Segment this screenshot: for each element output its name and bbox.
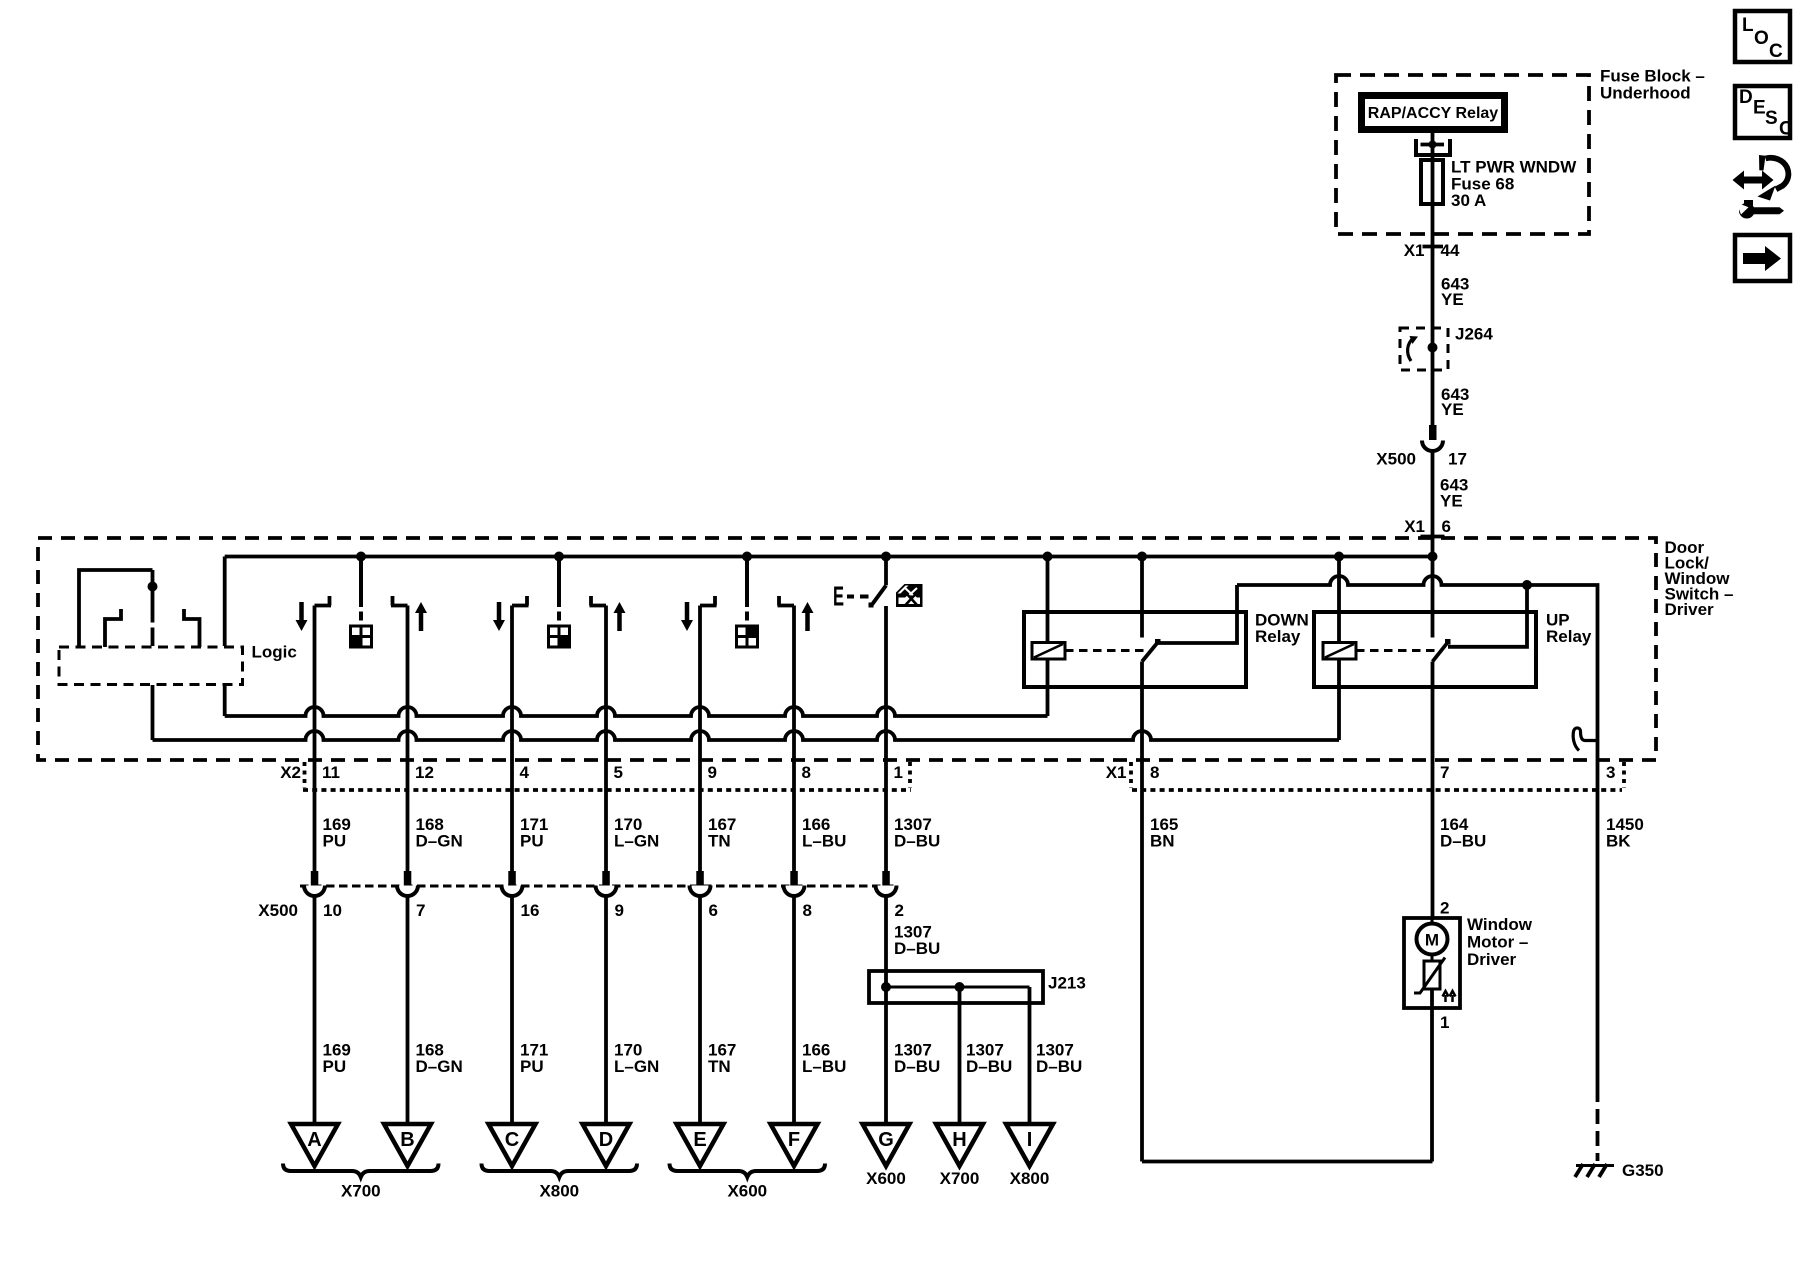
wire 168 D-GN upper — [406, 606, 410, 872]
svg-text:D: D — [599, 1129, 613, 1151]
svg-text:10: 10 — [323, 901, 342, 920]
svg-text:BK: BK — [1606, 832, 1631, 851]
svg-text:Motor –: Motor – — [1467, 933, 1528, 952]
X500 dashed joining line — [300, 885, 897, 888]
svg-text:Relay: Relay — [1546, 627, 1592, 646]
terminal triangle C — [489, 1124, 536, 1166]
ground spur curl — [1573, 728, 1597, 751]
svg-text:X1: X1 — [1404, 241, 1425, 260]
svg-text:X800: X800 — [1010, 1169, 1050, 1188]
SECTION: feed chain — [1376, 325, 1493, 557]
LOC nav box — [1735, 11, 1790, 62]
svg-text:L: L — [1742, 15, 1754, 36]
svg-text:TN: TN — [708, 1057, 731, 1076]
svg-text:C: C — [1779, 119, 1793, 140]
upper wire labels — [323, 815, 941, 851]
wire 1307 to I — [1028, 987, 1032, 1124]
wire 171 PU lower — [510, 897, 514, 1125]
svg-text:C: C — [505, 1129, 519, 1151]
svg-text:YE: YE — [1441, 290, 1464, 309]
svg-text:8: 8 — [803, 901, 812, 920]
wire 1307 D-BU upper — [884, 606, 888, 871]
connector X500 pin 17 (inline) — [1422, 425, 1443, 451]
relay output pin cup — [1416, 133, 1450, 160]
terminal triangle B — [384, 1124, 431, 1166]
wire 170 L-GN upper — [604, 606, 608, 872]
logic solid box — [79, 570, 153, 646]
bottom return run — [1142, 1160, 1433, 1164]
connector X500 row — [258, 871, 904, 920]
terminal triangle H — [936, 1124, 983, 1166]
node rail-down-contact — [1137, 552, 1147, 562]
svg-text:L–BU: L–BU — [802, 1057, 846, 1076]
inner rail 2 with hops — [153, 731, 1340, 740]
terminal triangle A — [291, 1124, 338, 1166]
svg-text:Logic: Logic — [252, 643, 297, 662]
svg-text:D–BU: D–BU — [1036, 1057, 1082, 1076]
down arrow — [685, 602, 690, 621]
terminal triangle G — [863, 1124, 910, 1166]
switch contact left — [700, 596, 717, 606]
svg-text:4: 4 — [520, 763, 530, 782]
express window icon — [896, 584, 923, 607]
node rail-down-coil — [1043, 552, 1053, 562]
node rail-up-coil — [1334, 552, 1344, 562]
svg-text:2: 2 — [895, 901, 904, 920]
wire 170 L-GN lower — [604, 897, 608, 1125]
node rail-icon3 — [742, 552, 752, 562]
svg-text:YE: YE — [1440, 492, 1463, 511]
icon stem wire — [745, 557, 749, 621]
express switch E — [833, 557, 923, 612]
lower wire labels — [323, 1041, 1083, 1077]
wire fuse to X1-44 — [1431, 204, 1435, 330]
X2 dotted line — [303, 788, 911, 792]
svg-text:17: 17 — [1448, 450, 1467, 469]
svg-text:X1: X1 — [1404, 517, 1425, 536]
door lock window switch label — [1665, 538, 1734, 619]
svg-text:D–BU: D–BU — [1440, 832, 1486, 851]
wire 166 L-BU upper — [792, 606, 796, 872]
DESC nav box — [1735, 86, 1793, 140]
svg-text:3: 3 — [1606, 763, 1615, 782]
down relay blade — [1142, 642, 1158, 662]
up relay actuation dashes — [1356, 649, 1435, 652]
fuse block underhood dashed box — [1336, 75, 1589, 234]
svg-text:8: 8 — [802, 763, 811, 782]
node J213-H — [955, 982, 965, 992]
window icon 3 — [737, 626, 758, 647]
svg-text:16: 16 — [521, 901, 540, 920]
RAP/ACCY Relay box — [1358, 92, 1508, 133]
X1 separator left — [1129, 762, 1133, 788]
svg-text:9: 9 — [708, 763, 717, 782]
up arrow — [419, 612, 424, 631]
SECTION: connectors and lower wires — [258, 606, 1086, 1201]
wire 1307 to H — [958, 987, 962, 1124]
fuse 68 symbol — [1421, 160, 1443, 204]
splice J213 box — [869, 971, 1043, 1003]
down relay coil — [1032, 643, 1065, 660]
svg-text:X700: X700 — [341, 1182, 381, 1201]
svg-text:TN: TN — [708, 832, 731, 851]
svg-text:L–GN: L–GN — [614, 1057, 659, 1076]
svg-text:E: E — [1753, 98, 1766, 119]
up arrow — [617, 612, 622, 631]
svg-text:J264: J264 — [1455, 325, 1493, 344]
down relay actuation dashes — [1065, 649, 1145, 652]
splice arrow glyph — [1408, 339, 1413, 362]
brace X700 — [283, 1164, 439, 1201]
wire X500 to X1-6 — [1431, 452, 1435, 557]
up relay blade — [1433, 642, 1449, 662]
pair 3: window switch — [681, 557, 814, 648]
wire rail to logic top — [223, 557, 227, 647]
icon stem wire — [359, 557, 363, 621]
logic detent step left — [105, 609, 121, 647]
wire 168 D-GN lower — [406, 897, 410, 1125]
svg-text:PU: PU — [323, 832, 347, 851]
logic latch wire with gap — [151, 570, 155, 646]
terminal triangle F — [771, 1124, 818, 1166]
switch contact right — [590, 596, 607, 606]
svg-text:PU: PU — [520, 1057, 544, 1076]
SECTION: top-right icons — [1733, 11, 1794, 281]
wire down coil to rail1 — [1046, 659, 1050, 716]
wire rail to up coil — [1337, 557, 1341, 643]
SECTION: fuse block — [1336, 67, 1705, 331]
svg-text:D–GN: D–GN — [416, 1057, 463, 1076]
svg-text:9: 9 — [615, 901, 624, 920]
svg-text:E: E — [693, 1129, 706, 1151]
door lock window switch driver dashed box — [38, 538, 1656, 760]
fixed contact stub — [884, 557, 888, 586]
wire 167 TN upper — [698, 606, 702, 872]
svg-text:D–BU: D–BU — [894, 939, 940, 958]
svg-text:G: G — [878, 1129, 894, 1151]
svg-text:L–GN: L–GN — [614, 832, 659, 851]
svg-text:2: 2 — [1440, 899, 1449, 918]
X2 separator left — [303, 762, 307, 788]
pair 1: window switch front left — [296, 557, 428, 648]
thermal protector — [1414, 958, 1456, 1003]
svg-text:Driver: Driver — [1467, 950, 1517, 969]
up arrow — [805, 612, 810, 631]
terminal triangle E — [677, 1124, 724, 1166]
wire logic bottom to rail1 — [223, 685, 227, 716]
up relay coil — [1323, 643, 1356, 660]
svg-text:X500: X500 — [258, 901, 298, 920]
svg-text:1: 1 — [894, 763, 903, 782]
svg-text:D–BU: D–BU — [894, 1057, 940, 1076]
X1 separator right — [1622, 762, 1626, 788]
svg-text:6: 6 — [709, 901, 718, 920]
ground wire dashed part — [1596, 1109, 1600, 1161]
down relay output to ground line — [1158, 585, 1237, 643]
svg-text:PU: PU — [520, 832, 544, 851]
svg-text:F: F — [788, 1129, 800, 1151]
ground G350 symbol — [1575, 1164, 1614, 1177]
motor wire to pin 1 — [1430, 989, 1434, 1162]
double-arrow / wrench icon — [1733, 155, 1789, 219]
svg-text:Underhood: Underhood — [1600, 84, 1691, 103]
svg-text:D–BU: D–BU — [966, 1057, 1012, 1076]
wire down relay to motor (165) — [1140, 662, 1144, 1162]
window icon 1 — [351, 626, 372, 647]
X500 pin symbols — [304, 871, 897, 896]
svg-text:12: 12 — [415, 763, 434, 782]
wire 169 PU lower — [313, 897, 317, 1125]
svg-text:C: C — [1769, 41, 1783, 62]
X2 separator right — [908, 762, 912, 788]
svg-text:RAP/ACCY Relay: RAP/ACCY Relay — [1368, 105, 1499, 122]
svg-text:30 A: 30 A — [1451, 191, 1486, 210]
svg-text:B: B — [400, 1129, 414, 1151]
wire 166 L-BU lower — [792, 897, 796, 1125]
up relay output branch — [1448, 585, 1527, 647]
wire 167 TN lower — [698, 897, 702, 1125]
svg-text:BN: BN — [1150, 832, 1175, 851]
wire logic bottom to rail2 — [151, 685, 155, 740]
node rail-icon1 — [356, 552, 366, 562]
pair 2: window switch — [493, 557, 626, 648]
node rail-feed — [1428, 552, 1438, 562]
switch contact right — [391, 596, 408, 606]
node logic latch — [148, 582, 158, 592]
down relay B+ contact stub — [1140, 557, 1144, 638]
wire rail2 to up coil — [1337, 659, 1341, 740]
svg-text:X800: X800 — [539, 1182, 579, 1201]
splice J264 node dot — [1428, 343, 1438, 353]
svg-text:X700: X700 — [940, 1169, 980, 1188]
switch contact left — [512, 596, 529, 606]
UP relay box — [1314, 612, 1536, 687]
SECTION: motor and grounds — [1106, 760, 1664, 1180]
svg-text:M: M — [1425, 931, 1439, 950]
svg-text:7: 7 — [416, 901, 425, 920]
logic detent step right — [184, 609, 200, 647]
terminal triangle D — [583, 1124, 630, 1166]
E dashes — [847, 595, 869, 599]
svg-text:44: 44 — [1441, 241, 1460, 260]
svg-text:X600: X600 — [727, 1182, 767, 1201]
svg-text:X1: X1 — [1106, 763, 1127, 782]
node rail-icon2 — [554, 552, 564, 562]
node ground branch — [1522, 580, 1532, 590]
svg-text:X2: X2 — [280, 763, 301, 782]
up relay B+ contact stub — [1431, 557, 1435, 638]
splice J264 dashed box — [1400, 328, 1448, 370]
inner rail 1 with hops — [225, 707, 1048, 716]
node rail-switchE — [881, 552, 891, 562]
forward-arrow nav box — [1735, 235, 1790, 281]
svg-text:1: 1 — [1440, 1013, 1449, 1032]
wire up relay to motor (164) — [1431, 662, 1435, 919]
svg-text:A: A — [307, 1129, 321, 1151]
switch blade — [871, 586, 886, 606]
J213 internal bus — [886, 986, 1030, 989]
wire 171 PU upper — [510, 606, 514, 872]
SECTION: relays — [1024, 557, 1598, 1162]
svg-text:J213: J213 — [1048, 974, 1086, 993]
window motor box — [1404, 918, 1460, 1008]
motor symbol M — [1417, 924, 1448, 955]
ground bus line with hops — [1237, 576, 1598, 760]
wire rail to down coil — [1046, 557, 1050, 643]
window icon 2 — [549, 626, 570, 647]
svg-text:11: 11 — [322, 763, 340, 782]
svg-text:PU: PU — [323, 1057, 347, 1076]
down arrow — [497, 602, 502, 621]
svg-text:S: S — [1765, 108, 1778, 129]
down arrow — [299, 602, 304, 621]
svg-text:6: 6 — [1442, 517, 1451, 536]
X1 6 pin tick — [1421, 535, 1445, 539]
connector X2 row — [280, 762, 911, 790]
node J213-G — [881, 982, 891, 992]
svg-text:Driver: Driver — [1665, 600, 1715, 619]
svg-text:D: D — [1739, 87, 1753, 108]
SECTION: big switch box — [38, 538, 1733, 760]
svg-text:D–BU: D–BU — [894, 832, 940, 851]
svg-text:H: H — [952, 1129, 966, 1151]
svg-text:L–BU: L–BU — [802, 832, 846, 851]
brace X800 — [482, 1164, 638, 1201]
X1 dotted line — [1132, 788, 1622, 792]
svg-text:Window: Window — [1467, 915, 1533, 934]
brace X600 — [670, 1164, 826, 1201]
X1 44 pin tick — [1423, 245, 1444, 249]
svg-text:O: O — [1754, 28, 1769, 49]
SECTION: switch units — [296, 557, 923, 648]
svg-text:5: 5 — [614, 763, 623, 782]
switch contact right — [778, 596, 795, 606]
icon stem wire — [557, 557, 561, 621]
svg-text:YE: YE — [1441, 400, 1464, 419]
svg-text:D–GN: D–GN — [416, 832, 463, 851]
svg-text:7: 7 — [1440, 763, 1449, 782]
logic dashed box — [59, 647, 243, 685]
svg-text:Relay: Relay — [1255, 627, 1301, 646]
terminal triangle I — [1006, 1124, 1053, 1166]
svg-text:G350: G350 — [1622, 1161, 1664, 1180]
ground wire 1450 solid part — [1596, 760, 1600, 1102]
connector X1 row — [1106, 762, 1624, 790]
wire through J264 — [1431, 330, 1435, 425]
svg-text:X500: X500 — [1376, 450, 1416, 469]
motor internal wire — [1431, 918, 1434, 961]
svg-text:E: E — [833, 581, 844, 612]
svg-text:I: I — [1027, 1129, 1033, 1151]
top supply rail — [225, 555, 1433, 559]
wire 169 PU upper — [313, 606, 317, 872]
svg-text:X600: X600 — [866, 1169, 906, 1188]
DOWN relay box — [1024, 612, 1246, 687]
svg-text:8: 8 — [1150, 763, 1159, 782]
wire 1307 D-BU lower — [884, 897, 888, 1125]
switch contact left — [315, 596, 332, 606]
